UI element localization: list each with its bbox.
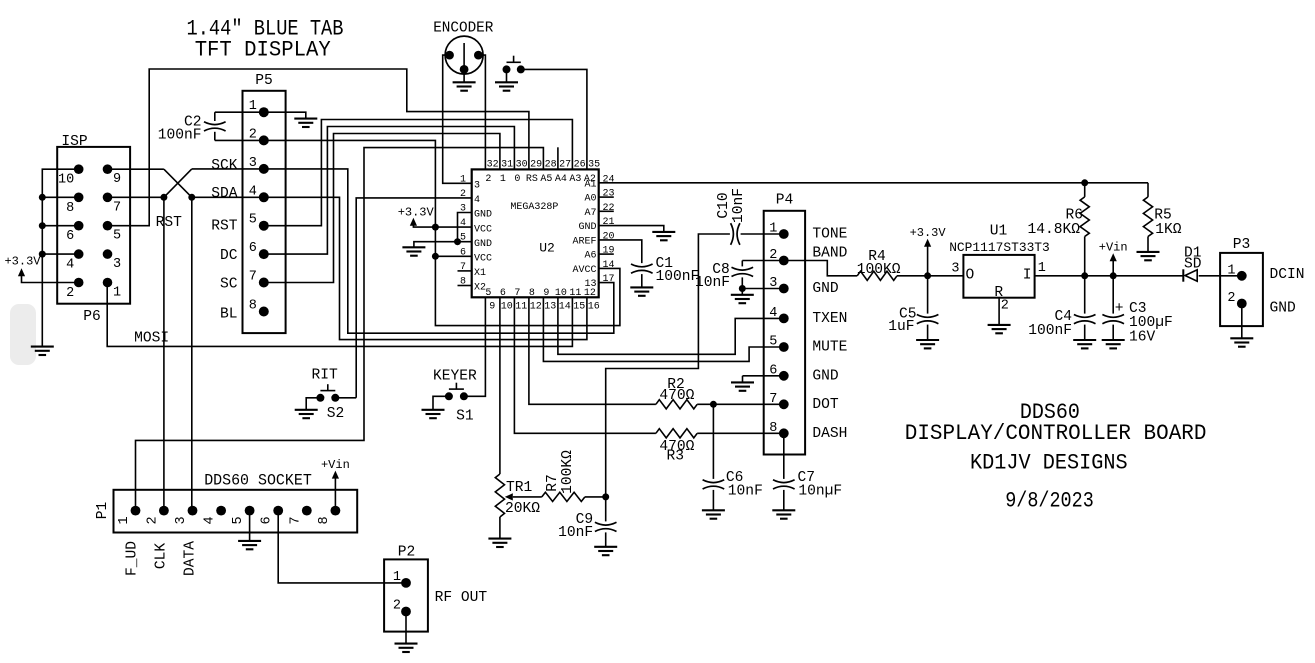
- P6 pin 1: [103, 278, 113, 288]
- svg-text:P6: P6: [83, 309, 101, 325]
- wire encoder A to MCU pin1: [443, 55, 472, 183]
- wire ISP pin4 to rail: [42, 253, 78, 255]
- junction VCC pin6: [432, 253, 439, 260]
- P1 pin 4: [216, 506, 226, 516]
- svg-text:X1: X1: [474, 268, 486, 279]
- svg-text:35: 35: [588, 159, 600, 170]
- wire GND bracket pin3 to pin5: [458, 213, 472, 242]
- P6 pin 9: [103, 164, 113, 174]
- wire P4 pin3 GND row: [742, 288, 784, 290]
- svg-text:12: 12: [530, 301, 542, 312]
- wire MUTE: MCU pin13 to P4 pin5: [543, 297, 783, 361]
- P4 pin 5: [779, 342, 789, 352]
- encoder pin B dot: [474, 51, 483, 60]
- svg-text:A6: A6: [584, 251, 596, 262]
- svg-text:8: 8: [317, 516, 332, 524]
- P3 pin 2: [1237, 299, 1247, 309]
- P5 pin 5: [259, 221, 269, 231]
- wire ISP pin7 row: [108, 196, 164, 198]
- wire P1 pin5 to ground: [249, 511, 251, 541]
- svg-text:AREF: AREF: [572, 236, 596, 247]
- svg-text:GND: GND: [578, 222, 596, 233]
- P5 pin 6: [259, 249, 269, 259]
- svg-text:8: 8: [529, 288, 535, 299]
- svg-text:BL: BL: [220, 306, 238, 322]
- junction C8 ground: [739, 285, 746, 292]
- capacitor C9: [605, 497, 607, 522]
- svg-text:15: 15: [573, 301, 585, 312]
- P5 pin 7: [259, 278, 269, 288]
- wire S2 to MCU pin2 net: [335, 397, 356, 399]
- P6 pin 7: [103, 193, 113, 203]
- svg-text:7: 7: [249, 270, 257, 285]
- wire ISP pin9 row: [108, 168, 164, 170]
- svg-text:+3.3V: +3.3V: [398, 206, 435, 220]
- svg-text:6: 6: [500, 288, 506, 299]
- svg-text:MOSI: MOSI: [134, 331, 169, 347]
- svg-text:3: 3: [474, 181, 480, 192]
- svg-text:RF OUT: RF OUT: [435, 590, 488, 606]
- svg-text:VCC: VCC: [474, 254, 492, 265]
- svg-text:16: 16: [588, 301, 600, 312]
- svg-text:100KΩ: 100KΩ: [857, 262, 901, 278]
- switch S2 contact left: [316, 394, 324, 402]
- MCU U2 MEGA328P box: [472, 169, 599, 297]
- wire P5 pin1 to ground: [215, 112, 306, 118]
- P4 pin 4: [779, 314, 789, 324]
- wire encoder B to MCU pin32: [478, 55, 485, 169]
- svg-text:P1: P1: [95, 502, 111, 520]
- ground C6: [702, 510, 725, 518]
- svg-text:RST: RST: [211, 218, 238, 234]
- wire MCU pin11 to R3: [514, 297, 656, 433]
- trimmer TR1 20K: [495, 474, 504, 517]
- wire S1 to MCU pin9: [464, 297, 486, 396]
- svg-text:F_UD: F_UD: [124, 541, 140, 576]
- switch S2 actuator: [320, 390, 335, 392]
- switch S1 contact right: [460, 392, 468, 400]
- svg-text:4: 4: [474, 195, 480, 206]
- wire SDA net P5 pin4 to MCU pin16: [192, 197, 587, 339]
- U2 pin27 stub: [557, 147, 559, 169]
- wire +3.3V arrow to VCC pin4: [413, 225, 435, 227]
- svg-text:2: 2: [145, 516, 160, 524]
- svg-text:13: 13: [544, 301, 556, 312]
- svg-text:4: 4: [66, 258, 74, 273]
- wire MCU pin20 AREF to C1: [599, 240, 642, 263]
- P4 pin 7: [779, 399, 789, 409]
- wire MOSI: ISP pin1 to MCU pin15: [107, 283, 572, 347]
- svg-text:MUTE: MUTE: [812, 340, 847, 356]
- svg-text:7: 7: [514, 288, 520, 299]
- P4 pin 6: [779, 371, 789, 381]
- svg-text:KEYER: KEYER: [433, 368, 477, 384]
- resistor R3 470 ohm: [656, 429, 697, 438]
- TR1 wiper arrow: [505, 493, 513, 500]
- connector P4 box: [764, 211, 805, 455]
- svg-text:5: 5: [113, 229, 121, 244]
- junction rail pin8: [39, 194, 46, 201]
- wire P3 pin2 to ground: [1241, 304, 1243, 339]
- U2 pin8 X2 stub: [458, 285, 472, 287]
- wire MCU pin24 A1 to R6 R5 rail: [599, 182, 1148, 184]
- svg-text:30: 30: [516, 159, 528, 170]
- resistor R6 14.8K: [1084, 183, 1086, 197]
- svg-text:A4: A4: [555, 174, 567, 185]
- capacitor C6: [712, 404, 714, 479]
- P1 pin 1: [131, 506, 141, 516]
- P4 pin 3: [779, 284, 789, 294]
- wire D1 to P3 pin1: [1199, 275, 1242, 277]
- ground C7: [772, 510, 795, 518]
- svg-text:19: 19: [603, 246, 615, 257]
- svg-text:26: 26: [574, 159, 586, 170]
- node CLK tap junction: [160, 194, 167, 201]
- svg-text:GND: GND: [474, 210, 492, 221]
- ground MCU GND pins: [402, 247, 425, 255]
- svg-text:P3: P3: [1233, 237, 1251, 253]
- svg-text:+3.3V: +3.3V: [4, 255, 41, 269]
- wire DATA vertical to P1 pin3: [191, 197, 193, 510]
- connector P6 ISP box: [57, 147, 130, 304]
- ground at P5 pin1: [294, 119, 317, 127]
- svg-text:P5: P5: [255, 73, 273, 89]
- wire display RST: ISP pin5 to MCU pin29: [108, 69, 529, 226]
- wire U1 output to D1: [1035, 275, 1184, 277]
- ground ISP rail: [31, 347, 54, 355]
- P4 pin 8: [779, 428, 789, 438]
- svg-text:100nF: 100nF: [158, 127, 202, 143]
- svg-text:DASH: DASH: [812, 426, 847, 442]
- connector P2 box: [384, 559, 428, 631]
- ground encoder: [453, 82, 476, 90]
- svg-text:A0: A0: [584, 194, 596, 205]
- svg-text:10nµF: 10nµF: [798, 484, 842, 500]
- ground P2: [395, 644, 418, 652]
- svg-text:R3: R3: [667, 449, 685, 465]
- svg-text:RST: RST: [156, 215, 183, 231]
- switch S2 contact right: [331, 394, 339, 402]
- svg-text:DC: DC: [220, 248, 238, 264]
- ground C9: [594, 547, 617, 555]
- resistor R4 100K: [857, 271, 897, 280]
- P5 pin 3: [259, 164, 269, 174]
- svg-text:31: 31: [501, 159, 513, 170]
- svg-text:1: 1: [500, 174, 506, 185]
- svg-text:A7: A7: [584, 208, 596, 219]
- U2 pin7 X1 stub: [458, 270, 472, 272]
- svg-text:4: 4: [203, 516, 218, 524]
- svg-text:2: 2: [485, 174, 491, 185]
- svg-text:10nF: 10nF: [728, 484, 763, 500]
- connector P5 box: [243, 91, 286, 333]
- svg-text:1: 1: [460, 174, 466, 185]
- svg-text:100nF: 100nF: [1028, 323, 1072, 339]
- svg-text:1uF: 1uF: [888, 319, 914, 335]
- svg-text:22: 22: [603, 203, 615, 214]
- P2 pin 2: [401, 607, 411, 617]
- svg-text:11: 11: [569, 288, 581, 299]
- svg-text:O: O: [966, 268, 975, 284]
- svg-text:14.8KΩ: 14.8KΩ: [1027, 222, 1080, 238]
- svg-text:+3.3V: +3.3V: [910, 226, 947, 240]
- svg-text:DOT: DOT: [812, 397, 839, 413]
- svg-text:+Vin: +Vin: [321, 458, 350, 472]
- svg-text:X2: X2: [474, 283, 486, 294]
- wire MCU pin10 to TR1: [499, 297, 501, 474]
- P3 pin 1: [1237, 271, 1247, 281]
- wire +3.3V link to AVCC: [435, 256, 620, 325]
- svg-text:TXEN: TXEN: [812, 311, 847, 327]
- svg-text:10nF: 10nF: [695, 275, 730, 291]
- svg-text:28: 28: [545, 159, 557, 170]
- P1 pin 7: [302, 506, 312, 516]
- wire VCC pin6 row: [435, 255, 471, 257]
- svg-text:MEGA328P: MEGA328P: [510, 202, 558, 213]
- svg-text:6: 6: [66, 229, 74, 244]
- svg-text:SCK: SCK: [211, 158, 238, 174]
- P2 pin 1: [401, 578, 411, 588]
- P5 pin 4: [259, 192, 269, 202]
- capacitor C1: [631, 264, 653, 273]
- svg-text:U1: U1: [990, 223, 1008, 239]
- svg-text:9: 9: [489, 301, 495, 312]
- U2 pin19 stub: [599, 253, 614, 255]
- svg-text:1: 1: [393, 570, 401, 585]
- ground C4: [1073, 340, 1096, 348]
- ground P1 pin5: [238, 541, 261, 549]
- P6 pin 6: [74, 221, 84, 231]
- capacitor C10: [731, 223, 740, 245]
- svg-text:9/8/2023: 9/8/2023: [1005, 489, 1094, 514]
- svg-text:29: 29: [530, 159, 542, 170]
- svg-text:9: 9: [113, 172, 121, 187]
- regulator U1 box: [963, 255, 1034, 298]
- svg-text:GND: GND: [812, 281, 839, 297]
- P6 pin 4: [74, 249, 84, 259]
- ground P4 pin3: [741, 289, 743, 295]
- wire crossover diagonal pin9 to SDA: [164, 169, 192, 197]
- capacitor C8: [742, 260, 784, 262]
- svg-text:CLK: CLK: [154, 543, 170, 570]
- svg-text:8: 8: [66, 201, 74, 216]
- capacitor C5: [927, 276, 929, 314]
- svg-text:6: 6: [249, 241, 257, 256]
- P6 pin 2: [74, 278, 84, 288]
- svg-text:P2: P2: [398, 545, 416, 561]
- P6 pin 8: [74, 193, 84, 203]
- svg-text:+Vin: +Vin: [1099, 241, 1128, 255]
- capacitor C2: [214, 112, 216, 121]
- svg-text:100KΩ: 100KΩ: [560, 450, 576, 494]
- svg-text:S2: S2: [327, 406, 345, 422]
- ground P4 pin6: [742, 376, 744, 383]
- svg-text:3: 3: [113, 257, 121, 272]
- wire TXEN: MCU pin14 to P4 pin4: [558, 297, 784, 354]
- ground R5: [1137, 252, 1160, 260]
- P4 pin 1: [779, 229, 789, 239]
- U2 pin22 stub: [599, 210, 614, 212]
- push button contact right: [517, 65, 525, 73]
- P1 pin 2: [159, 506, 169, 516]
- svg-text:SDA: SDA: [211, 186, 238, 202]
- svg-text:20: 20: [603, 231, 615, 242]
- encoder body circle: [445, 36, 483, 74]
- svg-text:P4: P4: [776, 193, 794, 209]
- ground MCU pin21: [652, 232, 675, 240]
- node DATA tap junction: [188, 194, 195, 201]
- svg-text:470Ω: 470Ω: [659, 388, 694, 404]
- junction GND pin5: [454, 238, 461, 245]
- resistor R2 470 ohm: [656, 400, 697, 409]
- junction R7 C9 TONE: [602, 493, 609, 500]
- svg-text:7: 7: [288, 516, 303, 524]
- svg-text:TONE: TONE: [812, 227, 847, 243]
- svg-text:1: 1: [117, 516, 132, 524]
- svg-text:9: 9: [543, 288, 549, 299]
- P6 pin 5: [103, 221, 113, 231]
- junction VCC pin4: [432, 224, 439, 231]
- wire P5 pin6 DC to MCU pin30: [264, 127, 515, 255]
- P5 pin 1: [259, 107, 269, 117]
- junction C4: [1081, 272, 1088, 279]
- svg-text:GND: GND: [474, 239, 492, 250]
- P6 pin 3: [103, 249, 113, 259]
- P5 pin 2: [259, 135, 269, 145]
- svg-text:8: 8: [249, 299, 257, 314]
- wire U1 ground pin: [998, 298, 1000, 325]
- P1 pin 6: [273, 506, 283, 516]
- svg-text:ENCODER: ENCODER: [433, 20, 493, 36]
- wire MCU pin2 to RIT switch: [356, 198, 472, 398]
- wire SCK net P5 pin3 to MCU pin17: [192, 169, 614, 333]
- svg-text:5: 5: [231, 516, 246, 524]
- U2 pin23 stub: [599, 196, 614, 198]
- svg-text:1: 1: [1038, 261, 1046, 276]
- svg-text:10nF: 10nF: [558, 525, 593, 541]
- svg-text:KD1JV DESIGNS: KD1JV DESIGNS: [970, 451, 1128, 476]
- wire ISP ground rail: [42, 169, 78, 346]
- svg-text:2: 2: [1227, 291, 1235, 306]
- svg-text:A3: A3: [569, 174, 581, 185]
- svg-text:RIT: RIT: [312, 368, 339, 384]
- svg-text:+: +: [1115, 301, 1124, 317]
- svg-text:AVCC: AVCC: [572, 265, 596, 276]
- svg-text:I: I: [1023, 268, 1032, 284]
- wire ISP pin2 to +3.3V arrow: [22, 276, 79, 283]
- svg-text:16V: 16V: [1129, 329, 1156, 345]
- svg-text:0: 0: [514, 174, 520, 185]
- svg-text:GND: GND: [1270, 300, 1297, 316]
- wire BAND to R4: [784, 261, 857, 276]
- svg-text:A5: A5: [540, 174, 552, 185]
- push button contact left: [503, 65, 511, 73]
- wire F_UD: MCU pin28 to P1 pin1: [136, 148, 544, 511]
- svg-text:RS: RS: [526, 174, 538, 185]
- svg-text:DCIN: DCIN: [1270, 267, 1305, 283]
- svg-text:24: 24: [603, 174, 615, 185]
- capacitor C7: [783, 433, 785, 479]
- svg-text:1: 1: [113, 286, 121, 301]
- ground C3: [1102, 340, 1125, 348]
- svg-text:VCC: VCC: [474, 224, 492, 235]
- wire P5 pin7 SC to MCU pin31: [264, 134, 500, 283]
- connector P3 box: [1220, 253, 1263, 326]
- svg-text:3: 3: [951, 262, 959, 277]
- svg-text:13: 13: [584, 279, 596, 290]
- encoder shaft line: [463, 43, 465, 69]
- encoder pin A dot: [445, 51, 454, 60]
- svg-text:DDS60 SOCKET: DDS60 SOCKET: [204, 472, 312, 490]
- svg-text:10: 10: [555, 288, 567, 299]
- svg-text:DISPLAY/CONTROLLER BOARD: DISPLAY/CONTROLLER BOARD: [905, 421, 1207, 446]
- svg-text:10nF: 10nF: [731, 188, 747, 223]
- switch S1 contact left: [445, 392, 453, 400]
- svg-text:21: 21: [603, 217, 615, 228]
- encoder common dot: [460, 65, 469, 74]
- svg-text:SC: SC: [220, 277, 238, 293]
- switch S1 actuator: [449, 388, 464, 390]
- svg-text:5: 5: [485, 288, 491, 299]
- wire TONE C10 right lead: [741, 233, 784, 235]
- svg-text:10: 10: [501, 301, 513, 312]
- junction rail pin4: [39, 251, 46, 258]
- junction rail pin6: [39, 222, 46, 229]
- svg-text:20KΩ: 20KΩ: [505, 501, 540, 517]
- wire S2 to ground: [306, 398, 320, 410]
- svg-text:14: 14: [603, 260, 615, 271]
- svg-text:10: 10: [58, 173, 74, 188]
- wire MCU pin12 to R2: [529, 297, 656, 404]
- svg-text:7: 7: [113, 200, 121, 215]
- wire P2 pin2 to ground: [405, 612, 407, 644]
- svg-text:R7: R7: [545, 474, 561, 492]
- svg-text:32: 32: [487, 159, 499, 170]
- diode D1: [1185, 270, 1197, 281]
- ground push button: [495, 82, 518, 90]
- svg-text:2: 2: [1001, 299, 1009, 314]
- svg-text:27: 27: [559, 159, 571, 170]
- svg-text:3: 3: [174, 516, 189, 524]
- wire TONE net to R7 C9 junction: [606, 234, 730, 497]
- wire crossover diagonal pin7 to SCK: [164, 169, 192, 197]
- svg-text:2: 2: [66, 286, 74, 301]
- svg-text:1: 1: [1227, 263, 1235, 278]
- wire P5 pin2 +3.3V rail to MCU VCC: [215, 140, 436, 227]
- wire P1 pin6 to P2 pin1: [278, 511, 406, 583]
- svg-text:A1: A1: [584, 179, 596, 190]
- svg-text:U2: U2: [539, 241, 555, 256]
- svg-text:GND: GND: [812, 368, 839, 384]
- wire ISP pin8 to rail: [42, 196, 78, 198]
- svg-text:S1: S1: [456, 409, 474, 425]
- ground S2: [295, 410, 318, 418]
- svg-text:ISP: ISP: [61, 134, 87, 150]
- junction rail R6: [1081, 179, 1088, 186]
- junction R2 C6: [710, 401, 717, 408]
- wire encoder common to ground: [463, 69, 465, 82]
- wire CLK vertical to P1 pin2: [163, 197, 165, 510]
- push button actuator: [507, 61, 521, 63]
- ground S1: [422, 410, 445, 418]
- svg-text:6: 6: [260, 516, 275, 524]
- P1 pin 8: [331, 506, 341, 516]
- svg-text:TFT DISPLAY: TFT DISPLAY: [195, 37, 331, 62]
- wire VCC pin4 row: [435, 226, 471, 228]
- wire ISP pin6 to rail: [42, 225, 78, 227]
- svg-text:5: 5: [249, 213, 257, 228]
- svg-text:NCP1117ST33T3: NCP1117ST33T3: [949, 240, 1050, 255]
